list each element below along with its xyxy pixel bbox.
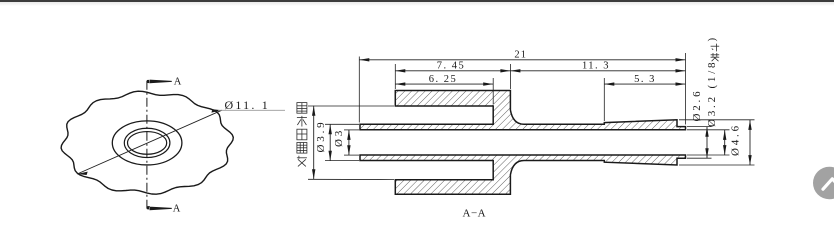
section lower material (hatched) bbox=[360, 155, 686, 194]
dim 21 line bbox=[359, 59, 685, 61]
leader shoulder bbox=[218, 109, 285, 111]
dim thread span line bbox=[313, 106, 315, 180]
ext line cavity right 6.25 bbox=[492, 78, 494, 104]
dim D3 line bbox=[348, 130, 350, 155]
svg-text:11. 3: 11. 3 bbox=[582, 61, 610, 72]
leader arrowhead lower-left bbox=[77, 172, 88, 175]
ext line block right bbox=[509, 64, 511, 89]
ext line block left bbox=[394, 64, 396, 89]
text inch CJK + paren bbox=[711, 44, 720, 62]
ext line taper start 5.3 bbox=[603, 78, 605, 121]
floating back-to-top button bbox=[813, 167, 834, 200]
text luer-internal-thread (CJK vertical) bbox=[297, 103, 307, 167]
dim 6.25 line bbox=[395, 83, 493, 85]
ext lines bore bbox=[687, 129, 730, 131]
svg-text:Ø2.6: Ø2.6 bbox=[691, 89, 703, 122]
ext line tip end bbox=[685, 53, 687, 125]
ext lines barb max D4.6 bbox=[679, 119, 755, 121]
knob outer ring ellipse bbox=[112, 121, 182, 165]
ext line tube left end bbox=[358, 57, 360, 123]
svg-text:): ) bbox=[706, 38, 718, 42]
ext lines thread span bbox=[308, 105, 394, 107]
dim tip OD line (D2.6 label) bbox=[706, 127, 708, 159]
leader arrowhead upper-right bbox=[211, 109, 222, 112]
svg-text:6. 25: 6. 25 bbox=[429, 74, 458, 85]
top dark browser bar bbox=[0, 0, 834, 2]
svg-text:Ø11. 1: Ø11. 1 bbox=[225, 98, 270, 112]
ext lines D3.9 bbox=[325, 123, 359, 125]
section cutting plane line A-A (vertical dash-dot) bbox=[146, 81, 148, 209]
svg-text:Ø3.2 (1/8: Ø3.2 (1/8 bbox=[706, 60, 718, 127]
dim 11.3 line bbox=[510, 70, 685, 72]
svg-text:5. 3: 5. 3 bbox=[634, 74, 656, 85]
section upper material (hatched) bbox=[360, 91, 686, 130]
svg-text:7. 45: 7. 45 bbox=[437, 61, 466, 72]
dim bore line (D3.2 label) bbox=[724, 130, 726, 155]
svg-text:A: A bbox=[173, 204, 181, 215]
svg-text:21: 21 bbox=[514, 50, 527, 61]
section arrow bottom bbox=[147, 206, 172, 210]
dim 5.3 line bbox=[604, 83, 685, 85]
diameter leader line across knob bbox=[77, 110, 222, 174]
knob middle ellipse bbox=[124, 128, 170, 157]
dim D4.6 line bbox=[749, 120, 751, 165]
svg-text:Ø3.9: Ø3.9 bbox=[315, 120, 327, 153]
svg-text:A−A: A−A bbox=[463, 207, 487, 219]
knob inner bore ellipse bbox=[128, 132, 167, 155]
svg-text:A: A bbox=[174, 76, 182, 87]
svg-text:Ø3: Ø3 bbox=[333, 128, 345, 147]
dim D3.9 line bbox=[329, 124, 331, 160]
left view: scalloped knob outline bbox=[61, 91, 233, 194]
ext lines D3 bbox=[344, 129, 359, 131]
svg-text:Ø4.6: Ø4.6 bbox=[730, 123, 742, 156]
section arrow top bbox=[147, 80, 172, 84]
dim 7.45 line bbox=[395, 70, 510, 72]
ext lines tip OD bbox=[687, 126, 712, 128]
